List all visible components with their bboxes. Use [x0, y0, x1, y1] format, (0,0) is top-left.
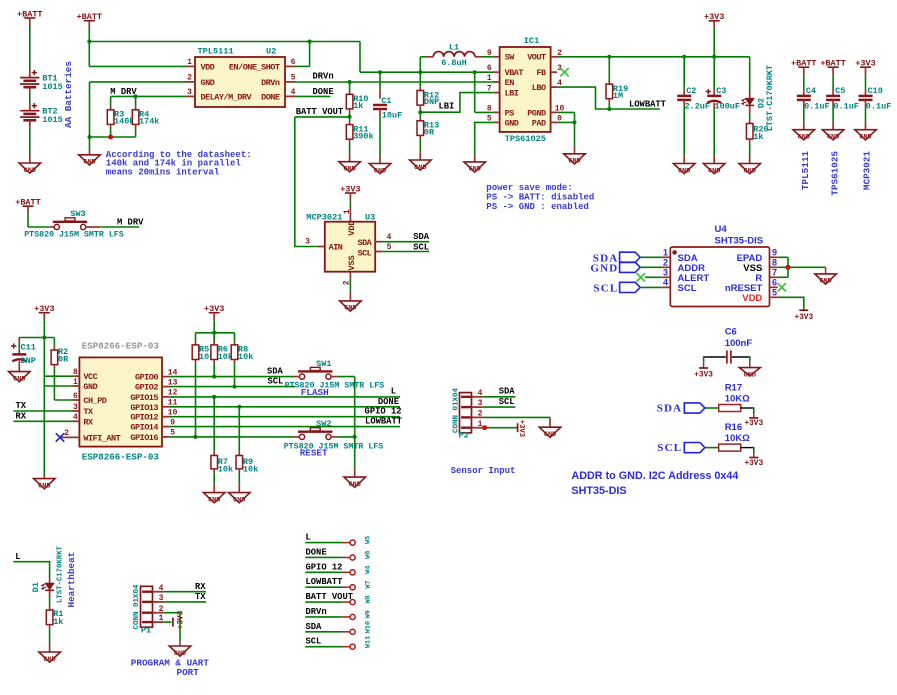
svg-text:C10: C10: [868, 86, 883, 96]
svg-text:4: 4: [387, 233, 392, 242]
svg-text:ESP8266-ESP-03: ESP8266-ESP-03: [82, 341, 160, 352]
svg-text:SCL: SCL: [413, 242, 429, 252]
svg-text:GND: GND: [349, 481, 361, 489]
svg-text:W10: W10: [364, 621, 372, 633]
svg-text:VBAT: VBAT: [505, 68, 524, 78]
svg-text:SCL: SCL: [268, 376, 284, 386]
svg-text:LOWBATT: LOWBATT: [306, 577, 344, 587]
svg-text:1: 1: [663, 247, 668, 257]
svg-text:10k: 10k: [218, 464, 233, 474]
svg-text:DNP: DNP: [424, 97, 439, 107]
svg-text:5: 5: [772, 287, 777, 297]
svg-text:P2: P2: [459, 431, 469, 441]
svg-text:GND: GND: [744, 371, 756, 379]
svg-text:2: 2: [159, 605, 164, 614]
svg-text:100nF: 100nF: [725, 338, 753, 349]
svg-text:Sensor Input: Sensor Input: [451, 466, 516, 476]
svg-text:C3: C3: [716, 86, 726, 96]
svg-text:2.2uF: 2.2uF: [685, 101, 711, 111]
svg-text:+3V3: +3V3: [744, 420, 763, 428]
svg-text:W9: W9: [364, 610, 372, 618]
svg-text:10KΩ: 10KΩ: [725, 394, 750, 405]
svg-text:100uF: 100uF: [715, 101, 741, 111]
svg-text:BATT VOUT: BATT VOUT: [306, 592, 354, 602]
svg-text:TX: TX: [83, 407, 94, 417]
svg-text:RX: RX: [83, 417, 94, 427]
svg-text:VCC: VCC: [83, 372, 97, 382]
svg-text:GND: GND: [744, 167, 756, 175]
svg-text:5: 5: [487, 114, 492, 123]
svg-text:PS: PS: [505, 108, 515, 118]
svg-text:SHT35-DIS: SHT35-DIS: [715, 236, 764, 247]
svg-text:C11: C11: [21, 342, 36, 352]
svg-text:GND: GND: [24, 167, 36, 175]
svg-text:6: 6: [772, 277, 777, 287]
svg-text:DRVn: DRVn: [306, 607, 327, 617]
svg-text:7: 7: [487, 85, 492, 94]
svg-text:TPS61025: TPS61025: [829, 151, 840, 196]
svg-text:+3V3: +3V3: [517, 420, 525, 437]
svg-text:7: 7: [772, 267, 777, 277]
svg-text:DNP: DNP: [21, 356, 36, 366]
svg-text:LOWBATT: LOWBATT: [629, 99, 667, 109]
svg-text:2: 2: [478, 410, 483, 419]
svg-text:DONE: DONE: [261, 92, 280, 102]
svg-text:4: 4: [478, 389, 483, 398]
svg-text:+3V3: +3V3: [694, 371, 713, 379]
svg-text:3: 3: [305, 238, 310, 247]
svg-text:C6: C6: [725, 327, 737, 338]
svg-text:P1: P1: [141, 625, 151, 635]
svg-text:GND: GND: [38, 482, 50, 490]
svg-text:U4: U4: [715, 224, 728, 235]
svg-text:GND: GND: [678, 167, 690, 175]
svg-text:GND: GND: [590, 263, 618, 275]
svg-text:WIFI_ANT: WIFI_ANT: [83, 433, 120, 443]
svg-text:6: 6: [487, 64, 492, 73]
svg-text:VDD: VDD: [347, 220, 357, 235]
svg-text:C2: C2: [686, 86, 696, 96]
svg-text:PTS820 J15M SMTR LFS: PTS820 J15M SMTR LFS: [285, 381, 385, 390]
svg-text:4: 4: [159, 584, 164, 593]
svg-text:DONE: DONE: [378, 397, 399, 407]
svg-text:4: 4: [663, 277, 668, 287]
svg-text:DELAY/M_DRV: DELAY/M_DRV: [201, 92, 253, 102]
svg-text:8: 8: [73, 368, 78, 377]
svg-text:+3V3: +3V3: [744, 460, 763, 468]
svg-text:M DRV: M DRV: [117, 217, 144, 227]
svg-text:PORT: PORT: [177, 667, 200, 678]
svg-text:SCL: SCL: [357, 248, 371, 258]
svg-text:ESP8266-ESP-03: ESP8266-ESP-03: [82, 452, 160, 463]
svg-text:LBO: LBO: [532, 83, 546, 93]
svg-text:C5: C5: [835, 86, 845, 96]
svg-text:LTST-C170KRKT: LTST-C170KRKT: [57, 545, 65, 603]
svg-text:9: 9: [772, 247, 777, 257]
svg-text:C1: C1: [381, 96, 391, 106]
svg-text:SCL: SCL: [678, 283, 697, 294]
svg-text:TX: TX: [195, 592, 206, 602]
svg-text:GND: GND: [43, 656, 55, 664]
svg-text:SCL: SCL: [306, 637, 322, 647]
svg-text:DRVn: DRVn: [313, 72, 334, 82]
svg-text:FB: FB: [536, 68, 546, 78]
svg-text:PTS820 J15M SMTR LFS: PTS820 J15M SMTR LFS: [284, 443, 384, 452]
svg-text:1k: 1k: [353, 101, 363, 111]
svg-text:FLASH: FLASH: [301, 387, 329, 398]
svg-text:L: L: [391, 387, 396, 397]
svg-text:RX: RX: [16, 412, 27, 422]
svg-text:SDA: SDA: [499, 386, 516, 396]
svg-text:CH_PD: CH_PD: [83, 396, 106, 406]
svg-text:W11: W11: [364, 636, 372, 648]
svg-text:PAD: PAD: [532, 118, 546, 128]
svg-text:GND: GND: [83, 159, 95, 167]
svg-text:GND: GND: [708, 167, 720, 175]
svg-text:6.8uH: 6.8uH: [441, 58, 467, 68]
svg-text:GND: GND: [13, 375, 25, 383]
svg-text:U2: U2: [266, 46, 276, 56]
svg-text:SW2: SW2: [316, 419, 331, 429]
svg-text:0.1uF: 0.1uF: [866, 101, 892, 111]
svg-text:LBI: LBI: [505, 89, 519, 99]
svg-text:2: 2: [187, 74, 192, 83]
svg-text:SDA: SDA: [267, 366, 284, 376]
svg-text:VSS: VSS: [347, 255, 357, 270]
svg-text:L: L: [15, 552, 20, 562]
svg-text:Hearthbeat: Hearthbeat: [66, 552, 77, 608]
svg-text:power save mode:: power save mode:: [486, 183, 572, 193]
svg-text:GPIO0: GPIO0: [135, 373, 158, 383]
svg-text:GND: GND: [414, 164, 426, 172]
svg-text:SDA: SDA: [306, 622, 323, 632]
svg-text:GND: GND: [343, 166, 355, 174]
svg-text:5: 5: [387, 243, 392, 252]
svg-text:8: 8: [772, 257, 777, 267]
svg-text:GND: GND: [798, 134, 810, 142]
svg-text:DONE: DONE: [306, 547, 327, 557]
svg-text:W4: W4: [364, 566, 372, 574]
svg-text:8: 8: [487, 104, 492, 113]
svg-text:TX: TX: [16, 401, 27, 411]
svg-text:+3V3: +3V3: [794, 314, 813, 322]
svg-text:CONN 01X04: CONN 01X04: [133, 584, 141, 630]
svg-text:PS -> GND : enabled: PS -> GND : enabled: [486, 202, 589, 212]
svg-text:W7: W7: [364, 580, 372, 588]
svg-text:SW: SW: [505, 53, 516, 63]
svg-text:AA Batteries: AA Batteries: [63, 61, 74, 128]
svg-text:GND: GND: [819, 278, 831, 286]
svg-text:10uF: 10uF: [382, 111, 402, 121]
svg-text:GND: GND: [83, 382, 97, 392]
svg-text:GPIO12: GPIO12: [130, 413, 158, 423]
svg-text:0R: 0R: [58, 354, 69, 364]
svg-text:GND: GND: [201, 78, 215, 88]
svg-text:0.1uF: 0.1uF: [804, 101, 830, 111]
svg-text:3: 3: [73, 403, 78, 412]
svg-text:LOWBATT: LOWBATT: [365, 417, 403, 427]
svg-text:LBI: LBI: [439, 101, 455, 111]
svg-text:+3V3: +3V3: [178, 610, 186, 629]
svg-text:10k: 10k: [243, 464, 258, 474]
svg-text:1015: 1015: [42, 82, 62, 92]
svg-text:DRVn: DRVn: [261, 78, 280, 88]
svg-text:10k: 10k: [238, 352, 253, 362]
svg-text:R17: R17: [725, 382, 742, 393]
svg-text:GND: GND: [859, 134, 871, 142]
svg-text:GND: GND: [505, 118, 519, 128]
svg-text:SW3: SW3: [70, 209, 85, 219]
svg-text:10KΩ: 10KΩ: [725, 433, 750, 444]
svg-text:1: 1: [487, 74, 492, 83]
svg-text:GPIO 12: GPIO 12: [306, 562, 343, 572]
svg-text:GPIO16: GPIO16: [130, 433, 158, 443]
svg-text:1: 1: [343, 209, 352, 214]
svg-text:SHT35-DIS: SHT35-DIS: [571, 485, 626, 497]
svg-text:M DRV: M DRV: [110, 87, 137, 97]
svg-text:140k: 140k: [114, 116, 134, 126]
svg-text:GND: GND: [568, 158, 580, 166]
svg-text:VDD: VDD: [201, 62, 215, 72]
svg-text:CONN 01X04: CONN 01X04: [453, 387, 461, 433]
svg-text:LTST-C170KRKT: LTST-C170KRKT: [765, 65, 775, 131]
svg-text:RX: RX: [195, 582, 206, 592]
svg-text:RESET: RESET: [300, 447, 328, 458]
svg-text:U3: U3: [365, 212, 375, 222]
svg-text:9: 9: [487, 49, 492, 58]
svg-text:GND: GND: [208, 496, 220, 504]
svg-text:W8: W8: [364, 595, 372, 603]
svg-text:VOUT: VOUT: [527, 53, 546, 63]
svg-text:GPIO2: GPIO2: [135, 383, 158, 393]
svg-text:BATT VOUT: BATT VOUT: [296, 107, 344, 117]
svg-text:1015: 1015: [42, 115, 62, 125]
svg-text:R16: R16: [725, 422, 742, 433]
svg-text:GND: GND: [374, 167, 386, 175]
svg-text:SDA: SDA: [413, 232, 430, 242]
svg-text:1k: 1k: [53, 617, 63, 627]
svg-text:0.1uF: 0.1uF: [833, 101, 859, 111]
svg-text:6: 6: [73, 392, 78, 401]
svg-text:ADDR to GND. I2C Address 0x44: ADDR to GND. I2C Address 0x44: [571, 470, 738, 482]
svg-text:SCL: SCL: [657, 442, 682, 454]
svg-text:3: 3: [663, 267, 668, 277]
svg-text:GND: GND: [544, 431, 556, 439]
svg-text:means 20mins interval: means 20mins interval: [106, 168, 220, 178]
svg-text:4: 4: [73, 413, 78, 422]
svg-text:GPIO15: GPIO15: [130, 393, 158, 403]
svg-text:SCL: SCL: [499, 397, 515, 407]
svg-text:GND: GND: [827, 134, 839, 142]
svg-text:TPL5111: TPL5111: [800, 151, 811, 190]
svg-text:IC1: IC1: [524, 36, 539, 46]
svg-text:2: 2: [64, 429, 69, 438]
svg-text:1: 1: [73, 378, 78, 387]
svg-text:1: 1: [478, 420, 483, 429]
svg-text:SW1: SW1: [316, 359, 331, 369]
svg-text:DONE: DONE: [313, 87, 334, 97]
svg-text:1M: 1M: [613, 91, 623, 101]
svg-text:0R: 0R: [424, 128, 435, 138]
svg-text:4: 4: [291, 88, 296, 97]
svg-text:1k: 1k: [753, 132, 763, 142]
svg-text:GND: GND: [233, 496, 245, 504]
svg-text:VDD: VDD: [742, 293, 762, 304]
svg-text:W5: W5: [364, 536, 372, 544]
svg-text:3: 3: [478, 399, 483, 408]
svg-text:L: L: [306, 533, 311, 543]
svg-text:3: 3: [187, 88, 192, 97]
svg-text:GND: GND: [344, 305, 356, 313]
svg-text:174k: 174k: [139, 116, 159, 126]
svg-text:AIN: AIN: [329, 243, 343, 253]
svg-text:MCP3021: MCP3021: [306, 212, 342, 222]
svg-text:3: 3: [159, 594, 164, 603]
svg-text:1: 1: [187, 58, 192, 67]
svg-text:GPIO 12: GPIO 12: [365, 407, 402, 417]
svg-text:SDA: SDA: [657, 402, 683, 414]
svg-text:PTS820 J15M SMTR LFS: PTS820 J15M SMTR LFS: [24, 231, 124, 240]
svg-text:TPL5111: TPL5111: [198, 46, 234, 56]
svg-text:MCP3021: MCP3021: [862, 151, 873, 190]
svg-text:PS -> BATT: disabled: PS -> BATT: disabled: [486, 192, 594, 202]
svg-text:6: 6: [291, 58, 296, 67]
svg-text:C4: C4: [806, 86, 816, 96]
svg-text:SDA: SDA: [357, 238, 372, 248]
svg-text:5: 5: [291, 74, 296, 83]
svg-text:SCL: SCL: [593, 283, 618, 295]
svg-text:1: 1: [159, 614, 164, 623]
svg-text:PGND: PGND: [527, 108, 546, 118]
svg-text:W6: W6: [364, 551, 372, 559]
svg-text:2: 2: [663, 257, 668, 267]
svg-text:TPS61025: TPS61025: [505, 134, 546, 144]
svg-text:390k: 390k: [353, 131, 373, 141]
svg-text:D1: D1: [31, 582, 41, 592]
svg-text:EN: EN: [505, 78, 515, 88]
svg-text:GND: GND: [469, 166, 481, 174]
svg-text:GPIO13: GPIO13: [130, 403, 158, 413]
svg-text:EN/ONE_SHOT: EN/ONE_SHOT: [229, 62, 280, 72]
svg-text:L1: L1: [449, 42, 459, 52]
svg-text:GPIO14: GPIO14: [130, 423, 158, 433]
